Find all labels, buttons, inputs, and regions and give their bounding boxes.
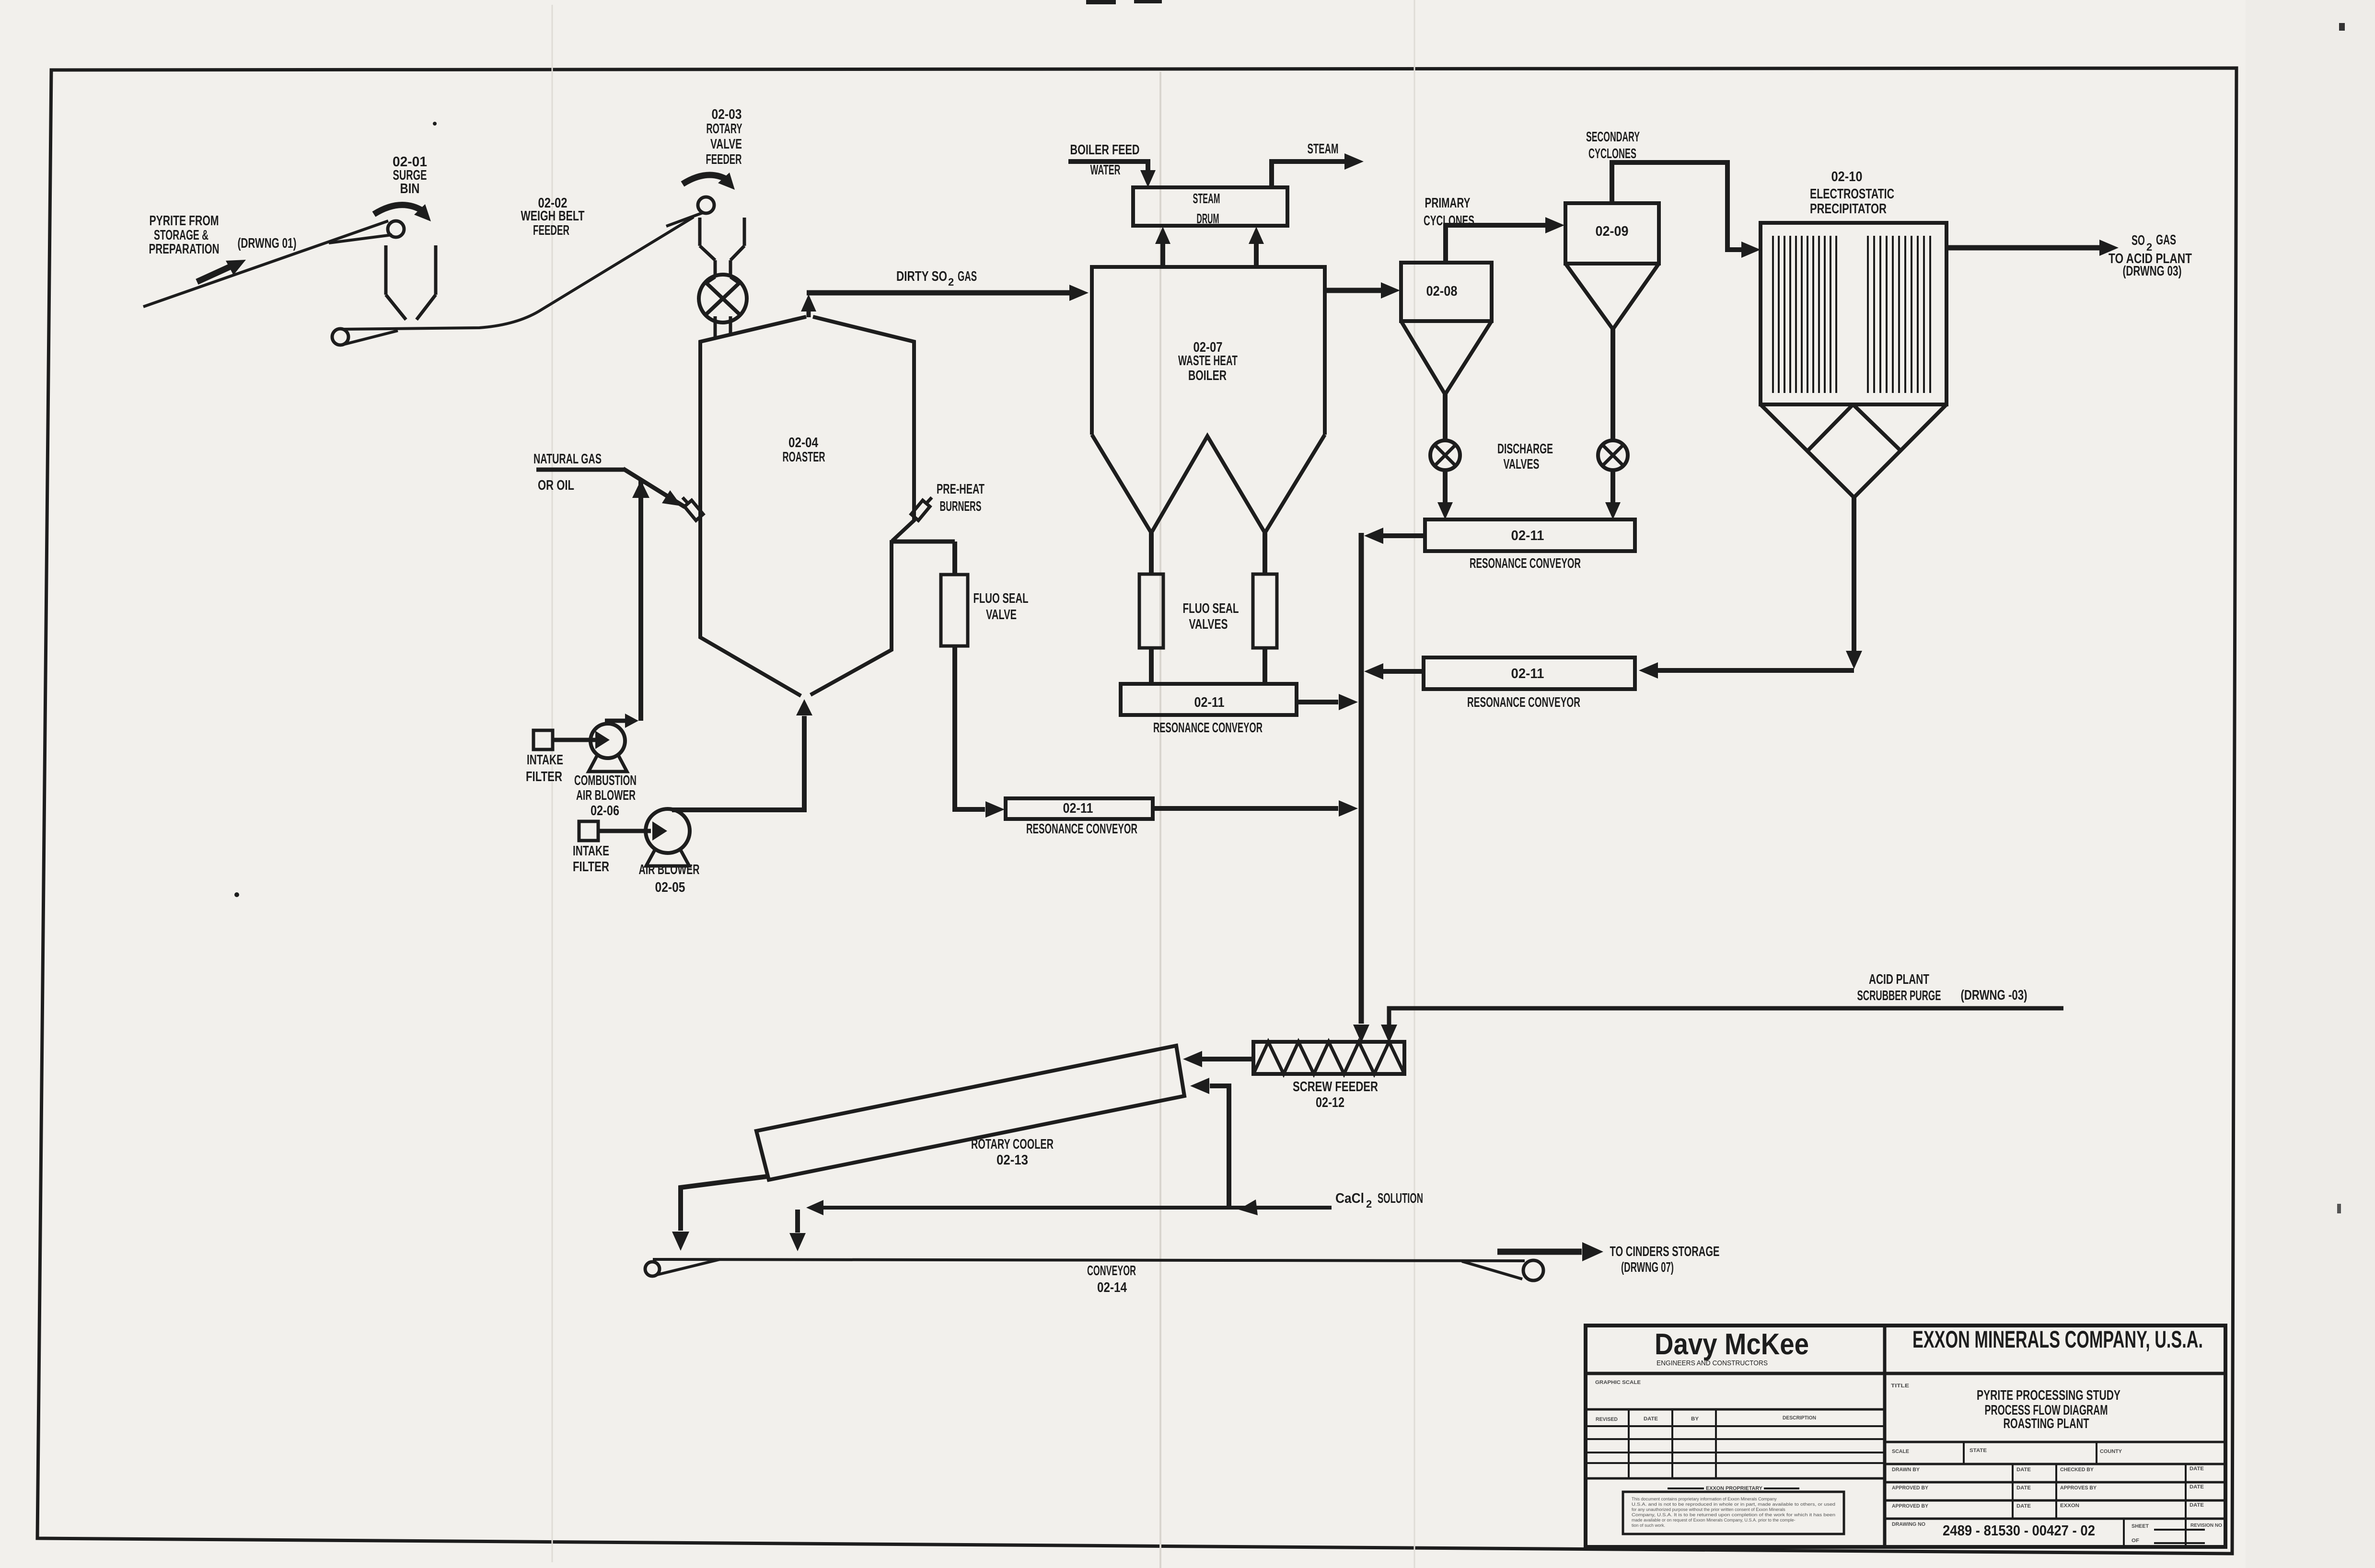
primary cyclone dust leg lower: [1443, 470, 1448, 502]
svg-text:FLUO SEAL: FLUO SEAL: [973, 591, 1029, 606]
primary cyclone dust leg upper: [1443, 394, 1448, 440]
svg-text:(DRWNG 03): (DRWNG 03): [2123, 264, 2182, 279]
conveyor 02-14 belt line: [653, 1259, 1525, 1261]
svg-text:WATER: WATER: [1090, 162, 1121, 178]
screw feeder 02-12 box: [1253, 1042, 1404, 1074]
svg-text:02-11: 02-11: [1511, 666, 1544, 681]
svg-text:PRIMARY: PRIMARY: [1425, 196, 1471, 211]
svg-text:NATURAL GAS: NATURAL GAS: [533, 451, 602, 467]
svg-text:REVISED: REVISED: [1596, 1417, 1618, 1422]
svg-text:DATE: DATE: [2016, 1503, 2031, 1509]
svg-text:DRUM: DRUM: [1197, 211, 1219, 227]
svg-text:02-04: 02-04: [788, 435, 818, 450]
revision table: [1586, 1425, 1885, 1427]
CaCl2 riser into cooler: [1210, 1086, 1229, 1207]
svg-text:CHECKED BY: CHECKED BY: [2060, 1467, 2094, 1473]
svg-text:COMBUSTION: COMBUSTION: [574, 773, 637, 788]
svg-text:SECONDARY: SECONDARY: [1586, 129, 1640, 145]
CaCl2 solution line: [815, 1206, 1332, 1210]
boiler hopper stems to fluo seal valves: [1149, 533, 1154, 574]
surge bin body: [384, 245, 388, 295]
svg-text:DATE: DATE: [2016, 1485, 2031, 1491]
svg-text:OR OIL: OR OIL: [538, 478, 574, 493]
svg-text:VALVES: VALVES: [1189, 617, 1228, 632]
boiler gas outlet to primary cyclone: [1325, 288, 1382, 293]
combustion air riser to gas line: [638, 480, 643, 721]
rotary valve circle with X: [699, 275, 747, 323]
conveyor head pulley: [1523, 1260, 1543, 1280]
svg-text:FEEDER: FEEDER: [706, 152, 742, 167]
svg-text:STEAM: STEAM: [1308, 141, 1339, 157]
combustion air blower 02-06 circle: [591, 724, 625, 758]
riser arrows boiler to steam drum: [1160, 242, 1165, 267]
title block header divider: [1586, 1372, 2225, 1375]
svg-text:EXXON: EXXON: [2060, 1503, 2079, 1509]
svg-text:02-12: 02-12: [1316, 1095, 1344, 1110]
svg-text:This document contains proprie: This document contains proprietary infor…: [1632, 1497, 1777, 1501]
natural gas line: [536, 468, 625, 472]
intake filter 06 line: [553, 738, 595, 742]
svg-text:FLUO SEAL: FLUO SEAL: [1183, 601, 1239, 616]
fluo seal valve left (boiler): [1139, 574, 1163, 648]
svg-text:02-03: 02-03: [712, 107, 742, 122]
steam drum: [1133, 187, 1287, 226]
steam outlet line: [1272, 161, 1345, 187]
svg-text:ROASTING PLANT: ROASTING PLANT: [2004, 1416, 2089, 1431]
svg-text:REVISION NO: REVISION NO: [2190, 1523, 2222, 1528]
svg-text:EXXON PROPRIETARY: EXXON PROPRIETARY: [1706, 1486, 1763, 1491]
svg-text:VALVE: VALVE: [986, 607, 1017, 623]
svg-text:SCREW FEEDER: SCREW FEEDER: [1293, 1079, 1378, 1095]
svg-text:FILTER: FILTER: [573, 859, 609, 875]
line conveyor 2 to collection line: [1383, 669, 1424, 674]
svg-text:CYCLONES: CYCLONES: [1588, 146, 1636, 161]
svg-text:SO: SO: [2132, 233, 2145, 248]
approved by row 2: [1885, 1499, 2225, 1502]
svg-text:CaCl: CaCl: [1335, 1191, 1364, 1206]
air blower 02-05 circle: [646, 809, 690, 853]
svg-text:APPROVES BY: APPROVES BY: [2060, 1485, 2097, 1491]
svg-text:DISCHARGE: DISCHARGE: [1497, 441, 1553, 457]
resonance conveyor 02-11 box 3 (boiler): [1121, 684, 1297, 715]
svg-text:PYRITE PROCESSING STUDY: PYRITE PROCESSING STUDY: [1977, 1388, 2120, 1403]
roaster gas outlet arrow: [807, 311, 811, 317]
svg-text:RESONANCE CONVEYOR: RESONANCE CONVEYOR: [1467, 695, 1580, 710]
svg-text:ROTARY COOLER: ROTARY COOLER: [971, 1137, 1054, 1152]
svg-text:APPROVED BY: APPROVED BY: [1892, 1485, 1929, 1491]
svg-text:02-08: 02-08: [1426, 284, 1458, 299]
screw feeder flights zigzag: [1253, 1042, 1404, 1074]
svg-text:DATE: DATE: [2016, 1467, 2031, 1473]
line conveyor 4 to collection line: [1153, 806, 1338, 811]
svg-text:(DRWNG 07): (DRWNG 07): [1621, 1260, 1674, 1275]
ESP plate bank left: [1772, 236, 1774, 393]
svg-text:U.S.A. and is not to be reprod: U.S.A. and is not to be reproduced in wh…: [1632, 1502, 1835, 1507]
svg-text:DATE: DATE: [2190, 1484, 2204, 1490]
scan speck right edge: [2339, 23, 2345, 31]
weigh belt feeder belt: [342, 217, 694, 329]
scan mark top edge: [1086, 0, 1116, 4]
svg-text:BURNERS: BURNERS: [940, 499, 982, 514]
svg-text:OF: OF: [2132, 1538, 2139, 1544]
svg-text:PRE-HEAT: PRE-HEAT: [937, 482, 985, 497]
primary cyclone gas outlet to secondary: [1446, 225, 1547, 263]
dirty SO2 gas line to waste heat boiler: [807, 290, 1071, 296]
svg-text:VALVE: VALVE: [710, 137, 742, 152]
drawing number row: [1885, 1518, 2225, 1520]
secondary cyclone dust leg upper: [1610, 329, 1615, 440]
weigh belt feeder tail pulley: [332, 329, 348, 345]
svg-text:STORAGE &: STORAGE &: [154, 228, 209, 243]
rotary valve feeder neck: [714, 260, 717, 277]
svg-text:tion of such work.: tion of such work.: [1632, 1523, 1665, 1528]
waste heat boiler 02-07 shell: [1092, 267, 1325, 435]
line conveyor 1 to collection line: [1383, 533, 1425, 538]
svg-text:(DRWNG 01): (DRWNG 01): [238, 236, 297, 251]
svg-text:02-11: 02-11: [1511, 528, 1544, 543]
resonance conveyor 02-11 box 2 (ESP dust): [1424, 657, 1635, 689]
CaCl2 drop leg to conveyor: [795, 1210, 800, 1233]
svg-text:made available or on request o: made available or on request of Exxon Mi…: [1632, 1518, 1796, 1522]
intake filter 05 line: [598, 829, 651, 833]
svg-text:WASTE HEAT: WASTE HEAT: [1178, 353, 1238, 369]
svg-text:STEAM: STEAM: [1193, 191, 1220, 207]
svg-text:INTAKE: INTAKE: [573, 843, 609, 859]
scale state county row: [1885, 1441, 2225, 1443]
rotary valve feeder rotation arrow: [683, 175, 729, 184]
resonance conveyor 02-11 box 4 (roaster): [1006, 798, 1153, 819]
svg-text:TO CINDERS STORAGE: TO CINDERS STORAGE: [1610, 1244, 1720, 1259]
svg-text:ENGINEERS AND CONSTRUCTORS: ENGINEERS AND CONSTRUCTORS: [1657, 1359, 1768, 1367]
svg-text:SCRUBBER PURGE: SCRUBBER PURGE: [1857, 988, 1941, 1003]
svg-text:BOILER: BOILER: [1188, 368, 1227, 383]
svg-text:02-14: 02-14: [1097, 1280, 1127, 1295]
arrow on gas line to burner: [662, 490, 682, 506]
svg-text:SOLUTION: SOLUTION: [1378, 1191, 1423, 1206]
svg-text:DATE: DATE: [2190, 1466, 2204, 1472]
feed flow arrow on incline: [197, 264, 236, 282]
svg-text:AIR BLOWER: AIR BLOWER: [639, 862, 700, 877]
svg-text:VALVES: VALVES: [1504, 457, 1540, 472]
svg-text:02-13: 02-13: [996, 1153, 1028, 1168]
secondary cyclone 02-09 body: [1565, 203, 1659, 264]
primary cyclone cone: [1401, 321, 1492, 394]
pipe from valve to resonance conveyor 4: [955, 646, 985, 809]
svg-text:FILTER: FILTER: [526, 769, 562, 784]
svg-text:RESONANCE CONVEYOR: RESONANCE CONVEYOR: [1026, 821, 1137, 837]
speck dot left: [433, 122, 437, 126]
line conveyor 3 to collection line: [1297, 700, 1338, 704]
to cinders storage arrow: [1497, 1249, 1582, 1255]
primary cyclone 02-08 body: [1401, 263, 1492, 321]
rotary valve outlet pipes to roaster: [714, 316, 717, 338]
fluo seal valve right (boiler): [1253, 574, 1277, 648]
paper tone right strip: [2246, 0, 2375, 1568]
svg-text:SHEET: SHEET: [2132, 1523, 2149, 1529]
discharge valve (primary): [1430, 440, 1460, 470]
paper fold crease center: [1159, 72, 1161, 1568]
svg-text:DRAWN BY: DRAWN BY: [1892, 1467, 1920, 1473]
svg-text:02-05: 02-05: [655, 880, 685, 895]
ESP hopper: [1761, 404, 1854, 497]
rotary cooler discharge chute: [681, 1176, 767, 1231]
svg-text:PRECIPITATOR: PRECIPITATOR: [1810, 201, 1887, 217]
title block outer box: [1586, 1326, 2225, 1547]
svg-text:02-11: 02-11: [1063, 801, 1093, 816]
svg-text:EXXON MINERALS COMPANY, U.S.A.: EXXON MINERALS COMPANY, U.S.A.: [1912, 1326, 2203, 1353]
svg-text:RESONANCE CONVEYOR: RESONANCE CONVEYOR: [1153, 720, 1263, 736]
svg-text:TITLE: TITLE: [1891, 1383, 1909, 1389]
discharge valve (secondary): [1598, 440, 1628, 470]
screw feeder discharge to rotary cooler: [1202, 1057, 1253, 1061]
boiler feed water line: [1068, 161, 1148, 170]
svg-text:DESCRIPTION: DESCRIPTION: [1783, 1415, 1816, 1421]
ESP clean gas outlet: [1946, 245, 2101, 251]
intake filter square 05: [579, 821, 598, 841]
roaster vessel outline: [700, 317, 806, 696]
ESP plate bank right: [1867, 236, 1869, 393]
feed conveyor belt line: [143, 221, 388, 307]
svg-text:INTAKE: INTAKE: [527, 752, 563, 768]
resonance conveyor 02-11 box 1 (cyclone discharge): [1425, 519, 1635, 551]
scrubber purge line: [1389, 1008, 2063, 1026]
secondary cyclone dust leg lower: [1610, 470, 1615, 502]
svg-text:2: 2: [948, 276, 954, 288]
svg-text:for any unauthorized purpose w: for any unauthorized purpose without the…: [1632, 1507, 1785, 1512]
approved by row 1: [1885, 1481, 2225, 1484]
secondary cyclone gas outlet to ESP: [1612, 162, 1743, 250]
svg-text:DATE: DATE: [2190, 1502, 2204, 1508]
svg-text:APPROVED BY: APPROVED BY: [1892, 1503, 1929, 1509]
svg-text:COUNTY: COUNTY: [2100, 1449, 2122, 1454]
svg-text:GAS: GAS: [2156, 232, 2176, 248]
svg-text:ELECTROSTATIC: ELECTROSTATIC: [1810, 186, 1894, 202]
pre-heat burner left: [684, 500, 703, 520]
svg-text:PYRITE FROM: PYRITE FROM: [150, 213, 219, 229]
svg-text:WEIGH BELT: WEIGH BELT: [521, 208, 585, 224]
svg-text:Company, U.S.A. It is to be re: Company, U.S.A. It is to be returned upo…: [1632, 1512, 1835, 1517]
pre-heat burner right: [911, 500, 930, 520]
ESP 02-10 casing: [1761, 223, 1946, 404]
surge bin rotation arrow: [374, 205, 423, 214]
secondary cyclone cone: [1565, 264, 1659, 329]
svg-text:02-09: 02-09: [1596, 224, 1629, 239]
svg-text:BY: BY: [1691, 1416, 1699, 1422]
svg-text:DATE: DATE: [1644, 1416, 1658, 1422]
svg-text:DRAWING NO: DRAWING NO: [1892, 1522, 1925, 1527]
svg-text:BOILER FEED: BOILER FEED: [1070, 142, 1140, 158]
waste heat boiler twin hoppers: [1092, 435, 1325, 533]
intake filter square 06: [533, 730, 553, 749]
fluo seal valve (roaster) feed pipe: [952, 542, 957, 575]
rotary valve feeder hopper: [698, 218, 702, 246]
svg-text:02-11: 02-11: [1194, 695, 1225, 710]
fluo seal valve (roaster): [941, 575, 968, 646]
surge bin outlet funnel: [386, 295, 406, 320]
drawn by row: [1885, 1463, 2225, 1465]
svg-text:Davy McKee: Davy McKee: [1655, 1328, 1809, 1361]
valve stems to resonance conveyor 3: [1149, 648, 1154, 684]
blower 06 outlet arrow: [605, 719, 632, 723]
paper fold crease right: [1414, 0, 1415, 1568]
svg-text:FEEDER: FEEDER: [533, 223, 569, 238]
svg-text:CONVEYOR: CONVEYOR: [1087, 1263, 1136, 1279]
svg-text:DIRTY SO: DIRTY SO: [896, 269, 947, 284]
paper fold crease left: [552, 5, 553, 1562]
svg-text:2489 - 81530 - 00427 - 02: 2489 - 81530 - 00427 - 02: [1943, 1522, 2095, 1539]
svg-text:STATE: STATE: [1970, 1448, 1987, 1453]
svg-text:GAS: GAS: [958, 269, 977, 284]
svg-text:SCALE: SCALE: [1892, 1449, 1909, 1454]
rotary cooler 02-13 shell: [756, 1046, 1184, 1180]
air line from blower 05 to roaster: [672, 716, 804, 810]
svg-text:(DRWNG -03): (DRWNG -03): [1961, 988, 2027, 1003]
cinder collection line to screw feeder: [1359, 533, 1364, 1024]
svg-text:ROASTER: ROASTER: [783, 450, 825, 465]
ESP dust line to resonance conveyor 2: [1852, 497, 1856, 652]
exxon proprietary box: [1623, 1492, 1844, 1534]
feed conveyor head pulley: [388, 221, 404, 237]
svg-text:RESONANCE CONVEYOR: RESONANCE CONVEYOR: [1470, 556, 1581, 571]
svg-text:02-06: 02-06: [591, 803, 619, 819]
svg-text:ACID PLANT: ACID PLANT: [1869, 972, 1929, 987]
svg-text:ROTARY: ROTARY: [707, 121, 742, 137]
title block company divider: [1883, 1326, 1887, 1547]
svg-text:02-10: 02-10: [1831, 169, 1863, 184]
svg-text:2: 2: [1366, 1198, 1372, 1210]
svg-text:AIR BLOWER: AIR BLOWER: [576, 788, 636, 803]
svg-text:PREPARATION: PREPARATION: [149, 242, 220, 257]
svg-text:GRAPHIC SCALE: GRAPHIC SCALE: [1595, 1380, 1641, 1385]
weigh belt head pulley at rotary valve feeder: [698, 197, 714, 213]
svg-text:BIN: BIN: [400, 181, 420, 196]
conveyor tail pulley: [645, 1262, 660, 1276]
